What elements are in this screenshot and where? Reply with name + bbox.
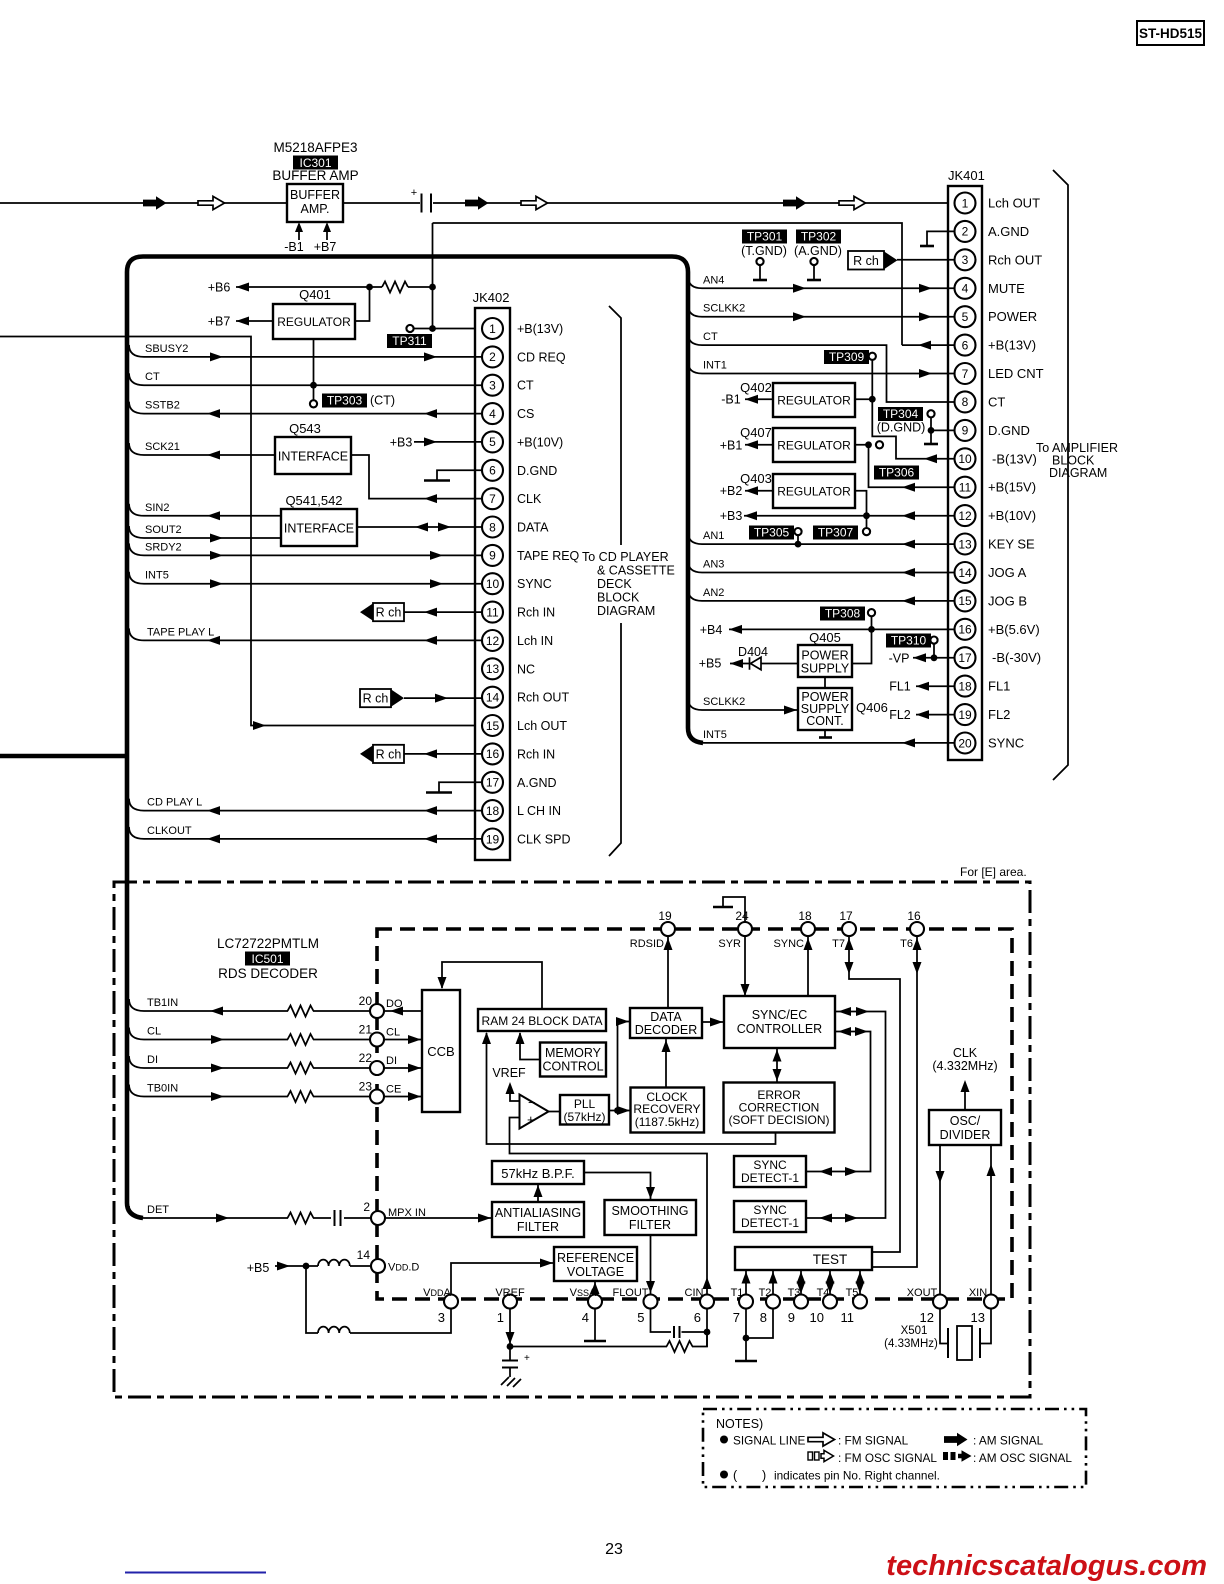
svg-text:TP304: TP304: [883, 407, 919, 421]
svg-text:D.GND: D.GND: [517, 464, 557, 478]
svg-text:+B6: +B6: [208, 281, 231, 295]
wire FL1 pin18: [916, 685, 955, 687]
electrolytic cap at VREF: [509, 1347, 511, 1361]
pin 3 IC501 bottom: [444, 1295, 458, 1309]
pin 11 JK402 Rch IN: [482, 602, 503, 623]
pin 20 IC501 DO: [370, 1004, 384, 1018]
svg-text:18: 18: [798, 909, 812, 923]
svg-text:TB0IN: TB0IN: [147, 1083, 178, 1095]
ground T1/T2 below pins: [746, 1309, 773, 1361]
svg-text:technicscatalogus.com: technicscatalogus.com: [886, 1550, 1207, 1582]
pin 10 IC501 bottom: [823, 1295, 837, 1309]
svg-text:12: 12: [958, 509, 972, 523]
svg-text:+B7: +B7: [208, 315, 231, 329]
svg-text:POWER: POWER: [988, 309, 1037, 324]
capacitor on DET line: [335, 1210, 341, 1226]
svg-text:SCLKK2: SCLKK2: [703, 303, 745, 315]
wire T3: [800, 1270, 802, 1294]
wire PLL to clock recovery: [609, 1110, 630, 1112]
block TEST: [735, 1247, 872, 1270]
svg-text:FL2: FL2: [889, 708, 911, 722]
svg-text:VDD.D: VDD.D: [388, 1262, 419, 1274]
svg-text:TB1IN: TB1IN: [147, 997, 178, 1009]
block 57kHz B.P.F.: [492, 1161, 584, 1184]
pin 6 IC501 bottom: [700, 1295, 714, 1309]
svg-text:11: 11: [486, 605, 499, 619]
pin 15 JK402 Lch OUT: [482, 715, 503, 736]
wire OSC to XOUT: [939, 1145, 941, 1294]
svg-text:CLK: CLK: [953, 1046, 978, 1060]
op-amp comparator: [520, 1095, 549, 1129]
svg-text:Q406: Q406: [856, 700, 888, 715]
svg-text:+B(5.6V): +B(5.6V): [988, 622, 1040, 637]
ground D.GND pin6: [437, 470, 482, 479]
wire SIN2 to interface: [129, 504, 144, 516]
node junction: [366, 284, 373, 291]
wire +B13V into pin6: [902, 344, 955, 346]
svg-text:CL: CL: [147, 1026, 161, 1038]
pin 8 JK401 CT: [955, 391, 976, 412]
svg-text:2: 2: [363, 1200, 370, 1214]
svg-text:TP309: TP309: [829, 350, 865, 364]
title box ST-HD515: [1137, 21, 1204, 45]
wire SCLKK2 to Q406: [688, 698, 702, 710]
svg-text:REGULATOR: REGULATOR: [777, 394, 851, 408]
svg-text:20: 20: [958, 736, 972, 750]
AM signal arrow: [783, 196, 807, 210]
svg-text:1: 1: [962, 196, 969, 210]
svg-text:18: 18: [486, 804, 500, 818]
svg-text:VREF: VREF: [492, 1066, 526, 1080]
svg-text:19: 19: [486, 832, 500, 846]
block SMOOTHING FILTER: [605, 1200, 697, 1235]
wire Q403 input from +B3/pin12: [744, 491, 955, 516]
svg-text:TAPE PLAY L: TAPE PLAY L: [147, 626, 214, 638]
svg-text:R ch: R ch: [376, 747, 402, 761]
svg-text:PLL: PLL: [574, 1097, 596, 1111]
wire TAPE PLAY L to pin12: [129, 628, 144, 640]
svg-text:: AM SIGNAL: : AM SIGNAL: [973, 1434, 1044, 1448]
svg-text:SMOOTHING: SMOOTHING: [611, 1204, 688, 1218]
svg-text:SUPPLY: SUPPLY: [801, 662, 850, 676]
wire DATA pin8: [357, 526, 482, 528]
wire MEMORY CONTROL to RAM: [520, 1033, 540, 1060]
svg-text:BLOCK: BLOCK: [597, 591, 640, 605]
svg-text:D.GND: D.GND: [988, 423, 1030, 438]
svg-text:Q403: Q403: [740, 471, 772, 486]
svg-text:BUFFER: BUFFER: [290, 188, 340, 202]
wire DI: [129, 1056, 144, 1068]
test point TP301 (T.GND): [742, 230, 787, 244]
svg-text:CLK: CLK: [517, 492, 542, 506]
svg-text:+B3: +B3: [390, 435, 413, 449]
block DATA DECODER: [630, 1008, 702, 1038]
svg-text:TP305: TP305: [754, 526, 790, 540]
svg-text:+B(10V): +B(10V): [988, 508, 1036, 523]
svg-text:T2: T2: [759, 1287, 772, 1299]
wire Q401 input: [355, 287, 370, 321]
ground symbol above SYR: [723, 897, 745, 922]
wire SOUT2 to interface: [129, 526, 144, 538]
svg-text:REGULATOR: REGULATOR: [777, 439, 851, 453]
pin 13 IC501 bottom: [984, 1295, 998, 1309]
svg-text:DECK: DECK: [597, 577, 632, 591]
test point TP309: [869, 353, 876, 360]
pin 1 JK401 Lch OUT: [955, 193, 976, 214]
svg-text:TP310: TP310: [891, 634, 927, 648]
block PLL 57kHz: [549, 1111, 561, 1113]
svg-text:JK402: JK402: [473, 290, 510, 305]
svg-text:CT: CT: [517, 379, 534, 393]
svg-text:23: 23: [359, 1080, 373, 1094]
svg-text:SCK21: SCK21: [145, 441, 180, 453]
svg-text:-B(13V): -B(13V): [992, 451, 1037, 466]
pin 8 JK402 DATA: [482, 517, 503, 538]
bus right trunk: [672, 257, 703, 743]
wire AN1 to KEY SE pin13: [688, 532, 702, 544]
wire SRDY2 to pin9: [129, 543, 144, 555]
pin 19 IC501 RDSID: [661, 922, 675, 936]
pin 24 IC501 SYR: [738, 922, 752, 936]
svg-text:23: 23: [605, 1541, 623, 1558]
pin 18 JK402 L CH IN: [482, 800, 503, 821]
pin 3 JK402 CT: [482, 375, 503, 396]
svg-text:INT5: INT5: [145, 570, 169, 582]
svg-text:DIVIDER: DIVIDER: [940, 1128, 991, 1142]
pin 13 JK401 KEY SE: [955, 534, 976, 555]
pin 22 IC501 DI: [370, 1061, 384, 1075]
svg-text:VDDA: VDDA: [423, 1287, 451, 1299]
svg-text:SOUT2: SOUT2: [145, 524, 182, 536]
svg-text:CS: CS: [517, 407, 534, 421]
FM signal arrow: [839, 196, 866, 209]
wire AN3 to JOG A pin14: [688, 561, 702, 573]
flag R ch pin11: [360, 603, 373, 620]
svg-text:TEST: TEST: [813, 1252, 848, 1267]
svg-text:Q543: Q543: [289, 421, 321, 436]
svg-text:SYNC: SYNC: [753, 1203, 787, 1217]
svg-text:(1187.5kHz): (1187.5kHz): [635, 1115, 699, 1129]
block CCB: [422, 990, 460, 1112]
AM signal arrow: [465, 196, 489, 210]
svg-text:DATA: DATA: [517, 521, 549, 535]
svg-text:AMP.: AMP.: [301, 202, 330, 216]
svg-text:16: 16: [958, 623, 972, 637]
svg-text:SBUSY2: SBUSY2: [145, 343, 188, 355]
svg-text:-B1: -B1: [721, 393, 741, 407]
pin 12 JK402 Lch IN: [482, 630, 503, 651]
notes legend box: [703, 1409, 1086, 1487]
svg-text:(SOFT DECISION): (SOFT DECISION): [728, 1113, 829, 1127]
svg-text:13: 13: [486, 662, 500, 676]
pin 1 IC501 bottom: [503, 1295, 517, 1309]
pin 5 IC501 bottom: [644, 1295, 658, 1309]
wire CL: [129, 1028, 144, 1040]
wire +B7 output: [236, 320, 273, 322]
block ERROR CORRECTION: [724, 1083, 835, 1133]
svg-text:19: 19: [658, 909, 672, 923]
svg-text:AN4: AN4: [703, 274, 724, 286]
svg-text:TP301: TP301: [747, 230, 783, 244]
svg-text:POWER: POWER: [801, 649, 848, 663]
resistor on +B6 line: [382, 282, 408, 293]
wire T5: [859, 1270, 861, 1294]
svg-text:RECOVERY: RECOVERY: [633, 1102, 700, 1116]
svg-text:FL2: FL2: [988, 707, 1010, 722]
pin 16 JK401 +B(5.6V): [955, 619, 976, 640]
wire INT5 to pin10: [129, 572, 144, 584]
svg-text:DI: DI: [147, 1054, 158, 1066]
wire clock recovery to data decoder: [665, 1039, 667, 1088]
wire data decoder to sync/ec: [702, 1021, 723, 1023]
wire VREF-CIN resistor: [510, 1332, 707, 1347]
block REFERENCE VOLTAGE: [554, 1247, 637, 1281]
wire RDSID from data decoder: [667, 937, 669, 1009]
svg-text:57kHz B.P.F.: 57kHz B.P.F.: [501, 1166, 574, 1181]
svg-text:CLK SPD: CLK SPD: [517, 833, 571, 847]
svg-text:SIGNAL LINE: SIGNAL LINE: [733, 1434, 805, 1448]
pin 9 JK402 TAPE REQ: [482, 545, 503, 566]
wire T4: [829, 1270, 831, 1294]
svg-text:20: 20: [359, 994, 373, 1008]
svg-text:Q541,542: Q541,542: [285, 493, 342, 508]
block OSC/DIVIDER: [929, 1110, 1001, 1145]
test point TP304 (D.GND): [878, 407, 923, 421]
wire T7 to TEST: [849, 937, 900, 1253]
pin 7 IC501 bottom: [739, 1295, 753, 1309]
ground A.GND pin17: [439, 782, 482, 791]
svg-text:(CT): (CT): [370, 394, 395, 408]
wire Q543 to pin7 CLK: [351, 455, 482, 499]
svg-text:6: 6: [694, 1310, 701, 1325]
flag R ch pin14: [360, 689, 391, 707]
svg-text:CONT.: CONT.: [806, 714, 844, 728]
svg-text:SYNC: SYNC: [517, 577, 552, 591]
wire error correction feedback to RAM: [487, 1033, 776, 1144]
pin 20 JK401 SYNC: [955, 733, 976, 754]
bracket to amplifier: [1053, 170, 1068, 780]
svg-text:CL: CL: [386, 1027, 400, 1039]
wire Q402 input from pin10: [855, 360, 955, 459]
svg-text:RDS DECODER: RDS DECODER: [218, 966, 318, 981]
svg-text:: FM SIGNAL: : FM SIGNAL: [838, 1434, 909, 1448]
svg-text:MUTE: MUTE: [988, 281, 1025, 296]
pin 16 IC501 T6: [910, 922, 924, 936]
svg-text:L CH IN: L CH IN: [517, 804, 561, 818]
svg-text:+: +: [524, 1353, 530, 1364]
wire CT branch to pin8 CT: [688, 333, 702, 345]
svg-text:RDSID: RDSID: [630, 938, 664, 950]
svg-text:TP303: TP303: [327, 394, 363, 408]
svg-text:(D.GND): (D.GND): [877, 421, 926, 435]
IC501 chip boundary (heavy dashed): [377, 929, 1012, 1299]
svg-text:9: 9: [788, 1310, 795, 1325]
pin 18 JK401 FL1: [955, 676, 976, 697]
chassis ground below cap: [509, 1368, 511, 1377]
block MEMORY CONTROL: [540, 1043, 606, 1077]
svg-text:AN3: AN3: [703, 559, 724, 571]
wire VSSA into reference voltage: [594, 1282, 596, 1295]
svg-text:For [E] area.: For [E] area.: [960, 865, 1027, 879]
svg-text:T5: T5: [846, 1287, 859, 1299]
wire sync/ec - error correction: [776, 1048, 778, 1083]
svg-text:+B5: +B5: [699, 657, 722, 671]
svg-text:SYNC: SYNC: [773, 938, 804, 950]
pin 19 JK402 CLK SPD: [482, 829, 503, 850]
svg-text:M5218AFPE3: M5218AFPE3: [273, 140, 357, 155]
svg-text:DIAGRAM: DIAGRAM: [1049, 466, 1107, 480]
wire CLKOUT to pin19: [129, 827, 144, 839]
wire VREF arrow at opamp: [510, 1092, 520, 1101]
wire Q407 input from pin11: [855, 445, 955, 487]
wire to VDDA with inductor L2: [306, 1266, 451, 1333]
wire RAM to CCB: [442, 962, 542, 1009]
pin 12 IC501 bottom: [933, 1295, 947, 1309]
svg-text:CT: CT: [703, 331, 718, 343]
svg-text:19: 19: [958, 708, 972, 722]
test point TP303 with wire: [313, 339, 315, 400]
pin 3 JK401 Rch OUT: [955, 249, 976, 270]
svg-text:+B2: +B2: [720, 484, 743, 498]
svg-text:-B(-30V): -B(-30V): [992, 650, 1041, 665]
svg-text:11: 11: [959, 481, 972, 495]
pin 1 JK402 +B(13V): [482, 318, 503, 339]
svg-text:22: 22: [359, 1051, 373, 1065]
pin 4 IC501 bottom: [588, 1295, 602, 1309]
svg-text:17: 17: [839, 909, 853, 923]
bracket to CD player: [609, 306, 621, 856]
wire FLOUT to cap to CIN: [651, 1309, 708, 1348]
svg-text:DETECT-1: DETECT-1: [741, 1216, 799, 1230]
svg-text:24: 24: [735, 909, 749, 923]
svg-text:10: 10: [810, 1310, 824, 1325]
svg-text:5: 5: [637, 1310, 644, 1325]
wire T1: [745, 1270, 747, 1294]
svg-text:8: 8: [962, 395, 969, 409]
svg-text:1: 1: [489, 322, 496, 336]
svg-text:12: 12: [920, 1310, 934, 1325]
svg-text:Lch OUT: Lch OUT: [517, 719, 567, 733]
wire SCK21 to interface: [129, 443, 144, 455]
svg-text:16: 16: [486, 747, 500, 761]
svg-text:Rch OUT: Rch OUT: [988, 252, 1042, 267]
test point TP310: [886, 634, 931, 648]
wire SYNC from SYNC/EC: [807, 937, 809, 997]
pin 11 JK401 +B(15V): [955, 477, 976, 498]
wire PLL node to data decoder: [618, 1022, 630, 1111]
pin 4 JK401 MUTE: [955, 278, 976, 299]
wire main audio line: [0, 202, 955, 204]
pin 14 IC501 VDD.D: [371, 1259, 385, 1273]
svg-text:+B(10V): +B(10V): [517, 435, 563, 449]
svg-text:3: 3: [438, 1310, 445, 1325]
ground A.GND pin2 JK401: [927, 231, 955, 245]
svg-text:CD PLAY L: CD PLAY L: [147, 797, 202, 809]
pin 17 JK401 -B(-30V): [955, 647, 976, 668]
svg-text:8: 8: [760, 1310, 767, 1325]
svg-text:9: 9: [489, 549, 496, 563]
ground below VSSA: [594, 1309, 596, 1341]
pin 18 IC501 SYNC: [801, 922, 815, 936]
pin 12 JK401 +B(10V): [955, 505, 976, 526]
svg-text:DETECT-1: DETECT-1: [741, 1171, 799, 1185]
svg-text:5: 5: [489, 435, 496, 449]
svg-text:INTERFACE: INTERFACE: [278, 450, 348, 464]
pin 16 JK402 Rch IN: [482, 743, 503, 764]
svg-text:CONTROLLER: CONTROLLER: [737, 1022, 822, 1036]
svg-text:BUFFER AMP: BUFFER AMP: [272, 168, 358, 183]
svg-text:2: 2: [962, 225, 969, 239]
pin 14 JK401 JOG A: [955, 562, 976, 583]
legend pin no note: [720, 1471, 728, 1479]
svg-text:CD REQ: CD REQ: [517, 350, 566, 364]
wire from CD player area to Lch OUT: [0, 337, 482, 726]
svg-text:6: 6: [489, 464, 496, 478]
svg-text:D404: D404: [738, 645, 768, 659]
ground below Q406: [824, 730, 826, 737]
wire antialiasing to BPF: [537, 1185, 539, 1202]
pin 2 JK402 CD REQ: [482, 346, 503, 367]
svg-text:DIAGRAM: DIAGRAM: [597, 604, 655, 618]
svg-text:−: −: [528, 1095, 536, 1110]
svg-text:REGULATOR: REGULATOR: [777, 485, 851, 499]
block CLOCK RECOVERY: [631, 1088, 705, 1133]
wire CD PLAY L to pin18: [129, 799, 144, 811]
svg-text:Rch OUT: Rch OUT: [517, 691, 569, 705]
svg-text:LC72722PMTLM: LC72722PMTLM: [217, 936, 319, 951]
svg-text:-VP: -VP: [889, 651, 910, 665]
svg-text:SIN2: SIN2: [145, 502, 169, 514]
svg-text:: FM OSC SIGNAL: : FM OSC SIGNAL: [838, 1451, 937, 1465]
pin 5 JK402 +B(10V): [482, 431, 503, 452]
wire FL2 pin19: [916, 714, 955, 716]
test point TP307: [866, 516, 868, 528]
svg-text:OSC/: OSC/: [950, 1114, 981, 1128]
svg-text:SSTB2: SSTB2: [145, 400, 180, 412]
svg-text:R ch: R ch: [376, 606, 402, 620]
pin 5 JK401 POWER: [955, 306, 976, 327]
svg-text:JOG A: JOG A: [988, 565, 1027, 580]
wire INT5 to SYNC pin20: [688, 731, 702, 743]
svg-text:4: 4: [489, 407, 496, 421]
wire DO to CCB: [384, 1010, 422, 1012]
svg-text:JOG B: JOG B: [988, 593, 1027, 608]
svg-text:(57kHz): (57kHz): [563, 1110, 605, 1124]
svg-text:TP302: TP302: [801, 230, 837, 244]
capacitor C+ on audio line: [422, 194, 432, 213]
wire +B13V top run: [433, 223, 903, 345]
svg-text:14: 14: [958, 566, 972, 580]
wire CIN up to opamp + input: [510, 1118, 708, 1295]
svg-text:(4.33MHz): (4.33MHz): [884, 1338, 938, 1350]
pin 11 IC501 bottom: [853, 1295, 867, 1309]
svg-text:5: 5: [962, 310, 969, 324]
svg-text:CLKOUT: CLKOUT: [147, 825, 192, 837]
node +B7 supply arrow: [326, 230, 328, 240]
wire CLK output: [964, 1088, 966, 1110]
svg-text:TP311: TP311: [392, 334, 427, 348]
svg-text:SYR: SYR: [718, 938, 741, 950]
svg-text:AN2: AN2: [703, 587, 724, 599]
wire T2: [772, 1270, 774, 1294]
svg-text:KEY SE: KEY SE: [988, 537, 1035, 552]
svg-text:13: 13: [971, 1310, 985, 1325]
svg-text:14: 14: [486, 691, 500, 705]
pin 10 JK401 -B(13V): [955, 448, 976, 469]
wire VREF down to cap: [509, 1309, 511, 1347]
wire MPX IN to antialiasing filter: [385, 1217, 492, 1219]
svg-text:INT5: INT5: [703, 729, 727, 741]
